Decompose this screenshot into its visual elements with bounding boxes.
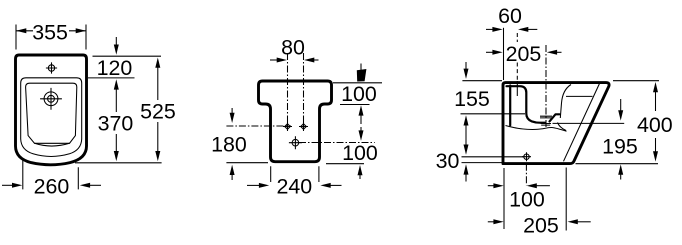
dim 400 top boundary	[613, 80, 659, 82]
floor line right	[576, 163, 659, 165]
dim 195 up arrow	[620, 173, 622, 180]
dim 120 down arrow	[115, 37, 117, 47]
fixing hole (small crosshair)	[46, 62, 57, 73]
dim 155 bottom boundary	[461, 113, 526, 115]
water channel line	[566, 95, 593, 97]
svg-text:30: 30	[436, 149, 460, 173]
dim 155 down arrow	[465, 62, 467, 70]
dim 100 upper: top boundary ext	[333, 82, 382, 84]
faucet hole (target symbol)	[40, 88, 62, 110]
svg-text:205: 205	[523, 214, 559, 238]
svg-text:240: 240	[276, 175, 312, 199]
bottom left extension line	[503, 168, 505, 229]
fixing hole right (diamond)	[301, 124, 307, 130]
svg-text:100: 100	[341, 82, 377, 106]
drain right rise	[550, 114, 560, 121]
bottom boundary ext right	[326, 163, 364, 165]
bottom hole dash-dot	[525, 164, 527, 186]
svg-text:80: 80	[281, 36, 305, 60]
bidet top-view bowl line	[26, 83, 77, 143]
dim 180 up arrow	[231, 174, 233, 180]
dim 260 right outside arrow	[89, 184, 101, 186]
tap axis dashed line	[516, 33, 518, 42]
dim 195 top boundary	[553, 122, 625, 124]
double arrow between 155 and 30	[465, 123, 467, 147]
dim 180 bottom boundary line	[226, 162, 268, 164]
down arrow to centre line	[360, 127, 362, 132]
dim 80 right arrow	[312, 59, 319, 61]
up arrow under bottom line	[359, 174, 361, 179]
vertical centerline right hole	[303, 53, 305, 127]
dim 370 lower arrow	[115, 134, 117, 153]
dim 205 top left arrow	[486, 51, 494, 53]
svg-text:155: 155	[454, 87, 490, 111]
dim 195 down arrow	[620, 99, 622, 112]
bidet side outline	[503, 83, 609, 164]
horizontal centerline through centre hole	[299, 142, 375, 144]
dim 400 up arrow	[655, 91, 657, 111]
dim 205 bottom left arrow	[488, 221, 495, 223]
bidet top-view outer outline	[16, 55, 87, 165]
inner slant (front apron inner)	[564, 84, 600, 162]
trap curve	[558, 123, 567, 131]
dim 100 bottom right arrow	[535, 185, 550, 187]
drain flange stack	[540, 116, 552, 118]
svg-text:100: 100	[342, 141, 378, 165]
baseline boundary (bottom of 370/525)	[75, 162, 162, 164]
thick marker arrow	[360, 64, 362, 71]
arrow 355 left	[16, 28, 26, 33]
dim 30 upper boundary	[462, 156, 525, 158]
dim 30 up arrow	[465, 174, 467, 182]
floor fixing hole symbol	[522, 152, 531, 161]
dim 120 bottom boundary line	[88, 77, 135, 79]
arrow 355 right	[76, 28, 86, 33]
bidet front outline (T shape)	[259, 81, 332, 162]
dim 260 extension lines	[23, 159, 79, 190]
svg-text:180: 180	[211, 133, 247, 157]
svg-text:400: 400	[637, 113, 673, 137]
dim 120 top boundary line	[93, 55, 162, 57]
dim 100 upper: bottom boundary ext	[340, 104, 370, 106]
fixing hole left (diamond)	[285, 124, 291, 130]
underside curve	[506, 126, 567, 132]
dim 260 left outside arrow	[2, 184, 13, 186]
dim 370 upper arrow	[115, 88, 117, 112]
dim 180 down arrow	[231, 108, 233, 114]
drain step	[541, 124, 552, 126]
bowl back inner arc	[560, 85, 571, 119]
dim 355 line left	[16, 30, 33, 32]
svg-text:205: 205	[506, 42, 542, 66]
dim 525 lower arrow	[157, 122, 159, 153]
vertical centerline left hole	[287, 53, 289, 127]
back wall extension line (solid)	[503, 28, 505, 80]
svg-text:355: 355	[32, 21, 68, 45]
bottom right extension line	[565, 168, 567, 231]
svg-text:120: 120	[97, 56, 133, 80]
dim 240 left arrow	[247, 184, 260, 186]
svg-text:260: 260	[34, 175, 70, 199]
dim 100 bottom left arrow	[488, 185, 495, 187]
up arrow under it	[360, 114, 362, 124]
dim 60 left arrow	[486, 28, 494, 30]
svg-text:525: 525	[140, 100, 176, 124]
dim 155 top boundary	[462, 80, 502, 82]
dim 400 down arrow	[655, 138, 657, 153]
dim 355 line right	[69, 30, 86, 32]
svg-text:370: 370	[98, 112, 134, 136]
dim 355 extension lines	[16, 25, 86, 50]
dim 80 left arrow	[270, 59, 278, 61]
dim 205 bottom right arrow	[576, 221, 591, 223]
dim 240 extension lines	[271, 166, 319, 182]
tap hole shaft	[509, 86, 511, 126]
centre hole symbol	[289, 136, 302, 149]
horizontal centerline through fixing holes	[226, 125, 291, 127]
dim 240 right arrow	[330, 184, 342, 186]
svg-text:195: 195	[602, 135, 638, 159]
drain axis dash-dot line	[545, 45, 547, 128]
rim / bowl section (thick hook)	[507, 86, 546, 123]
dim 60 right arrow	[527, 28, 538, 30]
dim 30 lower boundary	[462, 162, 503, 164]
bowl chamfer bottom arc	[35, 143, 70, 146]
svg-text:60: 60	[498, 4, 522, 28]
bidet top-view rim line	[21, 78, 82, 157]
dim 525 upper arrow	[157, 66, 159, 100]
dim 205 top right arrow	[556, 51, 562, 53]
svg-text:100: 100	[509, 188, 545, 212]
